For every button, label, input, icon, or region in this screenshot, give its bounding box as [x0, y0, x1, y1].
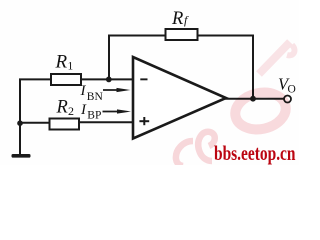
resistor R1 [51, 74, 81, 85]
wire R1 right segment to inverting input [81, 78, 133, 80]
svg-text:R: R [56, 98, 68, 118]
wire feedback top left segment [108, 35, 166, 37]
op-amp minus sign [140, 78, 147, 80]
wire feedback tap vertical [108, 36, 110, 80]
arrow IBN [103, 88, 131, 92]
svg-text:I: I [80, 83, 87, 99]
background paper [0, 0, 299, 165]
wire R2 right segment to non-inverting input [79, 121, 133, 123]
node B junction dot (left bus / R2) [17, 120, 23, 126]
svg-text:BP: BP [87, 110, 101, 122]
wire output segment [225, 98, 284, 100]
resistor Rf [166, 29, 198, 40]
svg-text:1: 1 [68, 61, 74, 73]
ground [12, 154, 31, 158]
resistor R2 [50, 119, 80, 130]
svg-text:R: R [171, 9, 183, 29]
svg-text:O: O [288, 83, 296, 95]
op-amp plus sign [139, 117, 149, 125]
watermark (decorative) [176, 42, 295, 166]
op-amp U1 [133, 57, 226, 139]
wire feedback right vertical [252, 35, 254, 99]
wire R1 left segment [19, 78, 51, 80]
output terminal [284, 96, 291, 103]
wire feedback top right segment [198, 35, 254, 37]
arrow IBP [103, 109, 132, 113]
node C junction dot (output / feedback) [250, 96, 256, 102]
svg-text:BN: BN [87, 91, 104, 103]
svg-text:2: 2 [68, 104, 74, 118]
node A junction dot (inverting input / feedback tap) [106, 77, 112, 83]
wire R2 left segment [20, 122, 50, 124]
wire left vertical bus [19, 79, 21, 155]
svg-text:bbs.eetop.cn: bbs.eetop.cn [214, 141, 296, 165]
svg-text:I: I [80, 102, 87, 118]
svg-text:R: R [55, 52, 68, 73]
